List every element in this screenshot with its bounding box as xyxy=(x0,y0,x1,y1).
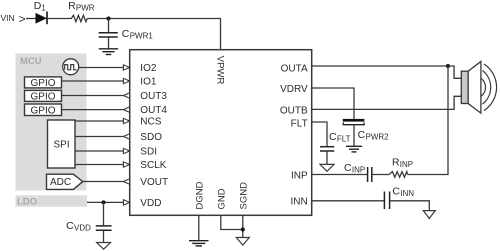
svg-text:VIN: VIN xyxy=(1,13,15,23)
svg-text:VOUT: VOUT xyxy=(140,177,168,188)
pin arrow IO2 (input) xyxy=(123,65,129,70)
svg-text:INP: INP xyxy=(400,160,413,169)
svg-text:SGND: SGND xyxy=(238,182,249,210)
svg-text:INN: INN xyxy=(400,189,414,198)
wire SGND to junction xyxy=(242,216,244,238)
wire SPI to NCS xyxy=(75,120,123,122)
wire GPIO3 to OUT4 xyxy=(62,109,124,111)
svg-text:OUTA: OUTA xyxy=(281,63,308,74)
svg-text:INP: INP xyxy=(291,170,308,181)
pin arrow VDD (input) xyxy=(123,200,129,205)
IC U1 body xyxy=(130,50,312,216)
GPIO box 2 xyxy=(25,90,62,102)
ground (open triangle) for CFLT xyxy=(320,164,334,171)
wire CPWR2 to ground xyxy=(353,125,355,146)
svg-text:SPI: SPI xyxy=(54,140,70,151)
svg-text:R: R xyxy=(392,157,400,169)
pin arrow VOUT (output) xyxy=(123,179,129,184)
wire INP to CINP xyxy=(312,174,367,176)
wire VDRV to CPWR2 xyxy=(312,88,354,119)
svg-text:OUT4: OUT4 xyxy=(140,105,167,116)
svg-text:VDD: VDD xyxy=(140,198,161,209)
svg-text:PWR: PWR xyxy=(76,4,95,13)
wire RINP to feedback junction xyxy=(408,66,448,175)
wire CVDD to ground xyxy=(103,231,105,243)
SPI box xyxy=(48,120,76,168)
capacitor CPWR2 xyxy=(343,119,389,141)
pin arrow OUT4 (output) xyxy=(123,107,129,112)
wire RPWR to VPWR pin xyxy=(87,19,220,50)
svg-text:SDO: SDO xyxy=(140,132,162,143)
PWM source circle in MCU xyxy=(63,59,79,75)
capacitor CVDD xyxy=(66,220,112,233)
ground (earth) for CPWR1 xyxy=(99,49,118,55)
wire VIN to D1 xyxy=(26,18,36,20)
svg-text:INP: INP xyxy=(352,165,365,174)
speaker LS1 xyxy=(461,62,496,114)
svg-text:GPIO: GPIO xyxy=(31,78,56,89)
wire GND to junction xyxy=(221,216,243,230)
MCU block xyxy=(16,54,87,191)
svg-text:FLT: FLT xyxy=(291,118,308,129)
wire junction to speaker top terminal xyxy=(448,66,461,78)
svg-text:MCU: MCU xyxy=(20,56,42,67)
junction node at VDD / CVDD xyxy=(102,200,106,204)
capacitor CFLT xyxy=(320,131,351,151)
svg-text:C: C xyxy=(358,129,366,141)
svg-text:IO2: IO2 xyxy=(140,63,157,74)
pin arrow IO1 (input) xyxy=(123,78,129,83)
wire CFLT to ground xyxy=(326,151,328,164)
svg-text:INN: INN xyxy=(290,197,307,208)
svg-text:C: C xyxy=(344,162,352,174)
svg-text:ADC: ADC xyxy=(50,177,71,188)
pin arrow SDO (output) xyxy=(123,134,129,139)
svg-text:VDRV: VDRV xyxy=(280,84,308,95)
svg-text:C: C xyxy=(122,28,130,40)
pin arrow OUT3 (output) xyxy=(123,93,129,98)
junction node OUTA / feedback xyxy=(446,64,450,68)
svg-text:NCS: NCS xyxy=(140,117,161,128)
wire SPI to SDI xyxy=(75,150,123,152)
svg-text:GND: GND xyxy=(216,188,227,209)
svg-text:C: C xyxy=(392,185,400,197)
svg-text:VPWR: VPWR xyxy=(214,56,225,85)
ground (open triangle) for GND/SGND xyxy=(236,238,249,246)
pin arrow NCS (input) xyxy=(123,118,129,123)
ground (open triangle) for CVDD xyxy=(97,243,111,250)
capacitor CINN xyxy=(384,185,414,209)
junction node GND/SGND xyxy=(241,228,245,232)
resistor RINP xyxy=(389,157,413,178)
svg-text:C: C xyxy=(329,131,337,143)
GPIO box 3 xyxy=(25,104,62,116)
svg-text:PWR2: PWR2 xyxy=(366,132,390,141)
wire FLT to CFLT xyxy=(312,122,327,146)
capacitor CINP xyxy=(344,162,372,182)
ground (open triangle) for CINN xyxy=(423,211,435,219)
wire CINN to ground xyxy=(390,201,429,211)
diode D1 xyxy=(34,0,47,24)
svg-text:GPIO: GPIO xyxy=(31,92,56,103)
wire SPI to SCLK xyxy=(75,164,123,166)
svg-text:PWR1: PWR1 xyxy=(130,32,154,41)
svg-text:IO1: IO1 xyxy=(140,77,157,88)
svg-text:FLT: FLT xyxy=(337,134,351,143)
svg-text:SDI: SDI xyxy=(140,147,157,158)
svg-text:LDO: LDO xyxy=(17,197,37,208)
wire junction to CPWR1 xyxy=(108,19,110,33)
svg-text:OUT3: OUT3 xyxy=(140,91,167,102)
wire SPI to SDO xyxy=(75,136,123,138)
wire OUTA to speaker junction xyxy=(312,65,448,67)
capacitor CPWR1 xyxy=(99,28,154,41)
wire GPIO2 to OUT3 xyxy=(62,95,124,97)
pin arrow SDI (input) xyxy=(123,148,129,153)
wire GPIO1 to IO1 xyxy=(62,80,124,82)
wire DGND to ground xyxy=(198,216,200,241)
svg-text:SCLK: SCLK xyxy=(140,160,166,171)
svg-text:VDD: VDD xyxy=(74,223,91,232)
svg-text:>: > xyxy=(19,12,26,26)
svg-text:GPIO: GPIO xyxy=(31,105,56,116)
ADC block xyxy=(47,174,83,189)
wire CINP to RINP xyxy=(372,174,389,176)
wire INN to CINN xyxy=(312,200,384,202)
wire PWM to IO2 xyxy=(79,67,123,69)
wire LDO to VDD xyxy=(87,201,123,203)
svg-text:DGND: DGND xyxy=(194,181,205,209)
wire ADC to VOUT xyxy=(83,181,124,183)
svg-text:R: R xyxy=(68,0,76,12)
svg-text:1: 1 xyxy=(41,4,46,13)
wire D1 to RPWR xyxy=(48,18,72,20)
LDO block xyxy=(16,195,88,206)
junction node at RPWR / CPWR1 xyxy=(107,17,111,21)
ground (earth) for DGND xyxy=(189,241,209,246)
resistor RPWR xyxy=(68,0,95,22)
GPIO box 1 xyxy=(25,77,62,89)
svg-text:OUTB: OUTB xyxy=(280,106,308,117)
wire junction to CVDD xyxy=(103,202,105,225)
wire CPWR1 to ground xyxy=(108,38,110,49)
wire OUTB to speaker bottom terminal xyxy=(312,96,461,109)
ground (earth) for CPWR2 xyxy=(346,146,362,152)
pin arrow SCLK (input) xyxy=(123,162,129,167)
svg-text:C: C xyxy=(66,220,74,232)
